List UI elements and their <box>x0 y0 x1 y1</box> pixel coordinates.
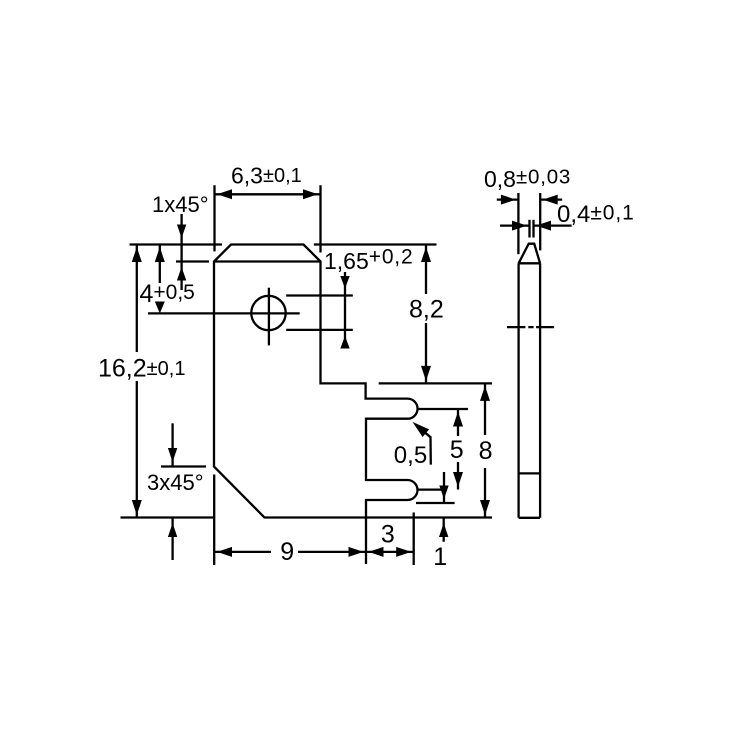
dimension line 9 right segment <box>298 551 366 553</box>
dimension line 9 left segment <box>215 551 272 553</box>
side view left edge <box>517 263 519 518</box>
top reference line left segment <box>130 243 222 245</box>
hole centerline vertical <box>268 288 270 346</box>
dimension line 8 upper <box>484 383 486 435</box>
arrowhead 6,3 left <box>217 189 232 199</box>
arrowhead 0,4 left <box>512 221 527 231</box>
dimension line 3 <box>366 551 414 553</box>
arrowhead leader 0,5 <box>413 422 430 437</box>
side view bottom edge <box>519 517 541 519</box>
svg-text:1: 1 <box>433 543 447 571</box>
chamfer fold line extension <box>176 260 209 262</box>
svg-text:4+0,5: 4+0,5 <box>140 280 195 308</box>
svg-text:5: 5 <box>450 436 464 464</box>
leader line 0,5 <box>416 425 431 465</box>
svg-text:16,2±0,1: 16,2±0,1 <box>98 355 185 383</box>
svg-text:9: 9 <box>280 538 294 566</box>
extension line 5 bottom <box>418 488 442 490</box>
dimension line 0,4 right <box>534 224 572 226</box>
side view shoulder line <box>519 262 541 264</box>
extension line 3x45 <box>161 465 206 467</box>
dimension line 8,2 lower <box>425 323 427 383</box>
svg-text:3: 3 <box>381 521 395 549</box>
arrowhead 5 up <box>453 412 463 427</box>
side view right edge <box>539 263 541 518</box>
part outline front view <box>214 245 418 518</box>
svg-text:0,5: 0,5 <box>394 442 427 469</box>
chamfer fold line <box>214 260 321 262</box>
extension line 3 right <box>413 513 415 566</box>
svg-text:8: 8 <box>479 437 493 465</box>
svg-text:8,2: 8,2 <box>409 296 444 324</box>
bottom reference line left <box>121 516 214 518</box>
dimension line 5 upper <box>457 409 459 436</box>
arrowhead 1,65 down <box>340 276 349 289</box>
arrowhead 4+0,5 up <box>155 247 165 262</box>
dimension line 16,2 lower <box>136 381 138 518</box>
side view centerline dash-dot <box>507 326 554 328</box>
arrowhead 0,8 left <box>501 195 516 205</box>
top reference line right segment <box>314 243 437 245</box>
arrowhead 8,2 down <box>421 366 431 381</box>
arrowhead 1,65 up <box>340 336 349 349</box>
dimension line 8,2 upper <box>425 245 427 295</box>
arrowhead 1 up <box>439 523 448 537</box>
arrowhead 1 down <box>439 486 448 500</box>
arrowhead 8 down <box>480 500 490 515</box>
arrowhead 0,4 right <box>536 221 551 231</box>
dimension line 1x45 <box>180 214 182 290</box>
svg-text:3x45°: 3x45° <box>147 470 204 495</box>
dimension line 3x45 upper <box>171 423 173 466</box>
dimension line 1 lower <box>443 518 445 542</box>
extension line 6,3 left <box>213 185 215 251</box>
arrowhead 16,2 down <box>132 500 142 515</box>
dimension line 0,8 right <box>540 198 562 200</box>
extension line 1 <box>416 502 455 504</box>
dimension line 5 lower <box>457 462 459 490</box>
extension line 1,65 bottom <box>286 329 353 331</box>
arrowhead 0,8 right <box>543 195 558 205</box>
dimension line 6,3 <box>215 193 321 195</box>
dimension line 4+0,5 <box>159 245 161 284</box>
arrowhead 16,2 up <box>132 247 142 262</box>
arrowhead 6,3 right <box>303 189 318 199</box>
dimension line 0,4 left <box>500 224 530 226</box>
side view tip <box>519 244 541 264</box>
extension line step <box>379 382 492 384</box>
dimension line 0,8 left <box>497 198 519 200</box>
arrowhead 3x45 down <box>168 448 177 462</box>
arrowhead 4+0,5 down <box>155 302 165 314</box>
side view inner line <box>519 472 541 474</box>
arrowhead 8 up <box>480 386 490 401</box>
extension line 5 top <box>418 408 468 410</box>
extension line 0,8 left <box>517 193 519 254</box>
arrowhead 9 left <box>217 547 232 557</box>
extension line 0,8 right <box>539 193 541 250</box>
extension line 9/3 middle <box>365 518 367 565</box>
arrowhead 3x45 up <box>168 523 177 537</box>
dimension line 1 upper <box>443 472 445 503</box>
arrowhead 9 right <box>349 547 364 557</box>
dimension line 16,2 upper <box>136 245 138 353</box>
svg-text:0,8±0,03: 0,8±0,03 <box>484 165 571 192</box>
svg-text:1x45°: 1x45° <box>152 192 209 217</box>
arrowhead 1x45 down <box>177 225 186 239</box>
extension line 9 left <box>213 475 215 566</box>
hole centerline horizontal <box>148 312 300 314</box>
arrowhead 3 left <box>369 547 384 557</box>
dimension line 1,65 <box>344 272 346 348</box>
dimension line 8 lower <box>484 468 486 518</box>
arrowhead 3 right <box>396 547 411 557</box>
tick 0,4 left <box>528 220 530 238</box>
bottom reference line right <box>366 516 492 518</box>
arrowhead 8,2 up <box>421 247 431 262</box>
extension line 1,65 top <box>286 294 353 296</box>
tick 0,4 right <box>532 220 534 238</box>
svg-text:6,3±0,1: 6,3±0,1 <box>231 163 302 189</box>
hole <box>251 296 285 330</box>
arrowhead 1x45 up <box>177 267 186 281</box>
extension line 6,3 right <box>319 185 321 252</box>
arrowhead 5 down <box>453 472 463 487</box>
dimension line 3x45 lower <box>171 518 173 561</box>
svg-text:0,4±0,1: 0,4±0,1 <box>557 201 635 228</box>
